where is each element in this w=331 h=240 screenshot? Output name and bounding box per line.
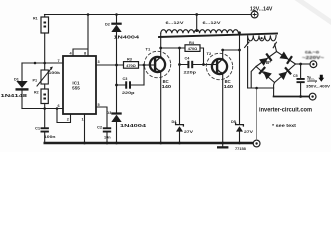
svg-text:D5: D5	[231, 120, 236, 124]
svg-text:D3: D3	[107, 111, 112, 115]
svg-text:470Ω: 470Ω	[188, 46, 198, 51]
svg-text:6...12V: 6...12V	[166, 20, 184, 25]
svg-text:~220V~: ~220V~	[302, 55, 324, 60]
capacitor C1 100n	[35, 109, 56, 144]
node junction D4/rail	[178, 142, 181, 145]
node junction pin2 tee	[56, 107, 59, 110]
svg-text:100n: 100n	[44, 135, 56, 139]
node junction collector/D5	[238, 49, 241, 52]
resistor R4 470	[185, 41, 200, 52]
node junction C2/rail	[106, 142, 109, 145]
node junction output/diode column	[115, 64, 118, 67]
node junction D5/rail	[238, 142, 241, 145]
svg-text:C4: C4	[185, 56, 191, 60]
svg-text:2: 2	[67, 118, 69, 122]
wire tie to battery minus	[256, 88, 258, 140]
node junction T1 emitter/rail	[159, 142, 162, 145]
wire top supply rail	[45, 14, 252, 16]
node junction D3/rail	[115, 142, 118, 145]
zener diode D4 27V	[172, 65, 194, 144]
node secondary mark	[261, 37, 263, 39]
svg-text:C5: C5	[293, 74, 298, 78]
svg-text:470Ω: 470Ω	[126, 63, 136, 68]
node junction base T1	[143, 64, 146, 67]
svg-text:1N4004: 1N4004	[120, 123, 147, 128]
svg-text:6...12V: 6...12V	[203, 20, 221, 25]
transformer core	[159, 34, 277, 38]
wire secondary right end to bridge top	[275, 44, 277, 52]
svg-text:B*: B*	[266, 60, 271, 65]
svg-text:D2: D2	[105, 23, 110, 27]
wire pins 4,8 bracket to rail	[73, 15, 88, 57]
svg-text:100k: 100k	[49, 71, 62, 75]
svg-text:140: 140	[162, 84, 172, 89]
node junction winding right end	[238, 31, 241, 34]
svg-text:1: 1	[82, 118, 84, 122]
node junction C4 branch	[178, 47, 181, 50]
node junction rail/riser	[87, 13, 90, 16]
wire R2 bottom	[44, 104, 46, 109]
wire pin7 row	[22, 62, 63, 64]
svg-text:12V...14V: 12V...14V	[250, 7, 273, 13]
svg-text:ca.~o: ca.~o	[305, 50, 320, 55]
wire minus output row	[274, 96, 309, 98]
node junction T2 emitter/rail	[221, 142, 224, 145]
node junction C1 column	[43, 107, 46, 110]
wire pin 1 to ground	[84, 114, 86, 143]
svg-text:1N4004: 1N4004	[114, 35, 140, 40]
transformer Tr1 primary winding	[161, 30, 239, 33]
svg-text:555: 555	[72, 86, 80, 91]
capacitor C4 220p	[178, 48, 205, 74]
transistor Q2: T2 BC140	[204, 51, 234, 89]
node junction collector	[159, 47, 162, 50]
label C5 values	[306, 75, 331, 89]
node center tap	[195, 29, 198, 32]
terminal AC output top	[310, 61, 317, 68]
svg-text:27V: 27V	[244, 129, 253, 134]
wire pin 3 output row	[96, 64, 150, 66]
svg-text:R2: R2	[34, 91, 39, 95]
capacitor C2 10n	[97, 125, 111, 143]
wire T2 collector jog to winding	[223, 33, 240, 59]
svg-text:P1: P1	[33, 79, 38, 83]
capacitor C3 220p	[115, 65, 144, 95]
node junction collector jog	[221, 49, 224, 52]
zener diode D5 27V	[231, 50, 253, 143]
svg-text:4: 4	[70, 52, 73, 56]
capacitor C5 electrolytic	[293, 64, 305, 98]
svg-text:C2: C2	[97, 125, 103, 130]
wire bridge plus output	[296, 63, 310, 65]
wire bottom AC return row	[248, 87, 274, 89]
node junction C5 tap	[299, 63, 302, 66]
svg-text:* see text: * see text	[272, 123, 297, 128]
resistor R1	[33, 17, 49, 34]
wire R1 top to rail	[44, 15, 46, 18]
bridge diode upper-left	[259, 53, 273, 67]
terminal +12V input	[251, 11, 258, 18]
svg-text:T2: T2	[207, 51, 212, 56]
svg-text:6: 6	[58, 104, 60, 108]
svg-text:220p: 220p	[122, 91, 135, 95]
wire pin 2 jog	[57, 109, 71, 123]
svg-text:1N4148: 1N4148	[1, 93, 28, 99]
ground symbol	[217, 143, 228, 149]
node junction tie	[255, 87, 258, 90]
svg-text:R1: R1	[33, 17, 38, 21]
svg-text:T1: T1	[146, 47, 151, 52]
wire pin 5 jog	[96, 107, 107, 127]
wire bridge bottom corner down	[273, 83, 276, 97]
svg-text:8: 8	[84, 52, 86, 56]
node junction pin1/rail	[83, 142, 86, 145]
wire T1 collector to R4 row	[161, 47, 185, 49]
op-amp U1: IC1 555 timer box	[63, 56, 96, 114]
svg-text:R3: R3	[127, 58, 132, 62]
svg-text:27V: 27V	[184, 129, 193, 134]
wire ground rail	[45, 142, 252, 144]
svg-text:3: 3	[98, 60, 100, 64]
wire R4 to T2 base	[200, 48, 204, 65]
svg-text:140: 140	[224, 84, 234, 89]
label ca 220V	[302, 50, 324, 60]
terminal 0V battery minus	[253, 140, 260, 147]
node junction y63	[34, 62, 37, 65]
transistor Q1: T1 BC140	[144, 47, 172, 90]
svg-text:7: 7	[58, 59, 60, 63]
terminal AC output bottom	[309, 93, 316, 100]
svg-text:inverter-circuit.com: inverter-circuit.com	[259, 107, 312, 114]
potentiometer P1 100k	[33, 63, 62, 86]
resistor R2	[34, 84, 48, 104]
arrow polarity	[318, 75, 324, 82]
wire bridge minus corner to output	[251, 67, 256, 89]
bridge diode lower-right	[278, 67, 292, 81]
wire T2 emitter to ground	[222, 75, 224, 143]
diode D1 1N4148	[14, 63, 29, 109]
scan artifact diagonal	[296, 0, 331, 22]
bridge rectifier B1 diamond	[256, 51, 296, 82]
node junction R1/P1	[43, 62, 46, 65]
bridge diode lower-left	[258, 66, 272, 80]
wire pin6 row	[22, 108, 63, 110]
wire R1 bottom down	[44, 33, 46, 63]
wire T1 collector riser	[160, 33, 162, 57]
diode D3 1N4004	[107, 111, 122, 143]
svg-text:D4: D4	[172, 120, 178, 124]
svg-text:77158: 77158	[235, 146, 247, 151]
bridge diode upper-right	[279, 51, 293, 64]
svg-text:1000µ: 1000µ	[307, 79, 317, 83]
diode D2 1N4004	[105, 13, 122, 112]
svg-text:5: 5	[98, 103, 100, 107]
svg-text:220p: 220p	[184, 70, 197, 74]
svg-text:C1: C1	[35, 126, 41, 131]
svg-text:C3: C3	[123, 77, 128, 81]
svg-text:350V...400V: 350V...400V	[306, 85, 331, 89]
node junction rail/tap	[195, 13, 198, 16]
svg-text:10n: 10n	[104, 136, 111, 140]
wire T1 emitter to ground	[160, 73, 162, 143]
transformer secondary winding	[245, 35, 277, 88]
wire center tap to rail	[196, 15, 198, 31]
resistor R3 470	[124, 58, 139, 69]
svg-text:D1: D1	[14, 78, 19, 82]
